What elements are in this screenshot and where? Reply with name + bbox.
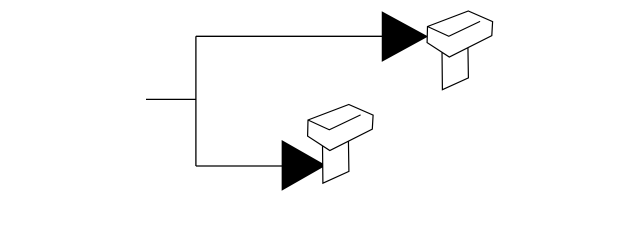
- node splitter junction: [195, 36, 197, 166]
- wire bottom branch: [196, 165, 283, 167]
- transducer X1 striker blade (top): [442, 46, 468, 90]
- wire top branch: [196, 35, 383, 37]
- wire input stub: [146, 98, 196, 100]
- transducer X2 body box (bottom): [308, 105, 374, 151]
- amplifier A2 (bottom driver triangle): [282, 141, 325, 190]
- transducer X2 striker blade (bottom): [323, 139, 349, 183]
- amplifier A1 (top driver triangle): [382, 12, 427, 61]
- transducer X1 top-face crease line (top): [428, 21, 481, 36]
- transducer X2 top-face crease line (bottom): [308, 115, 361, 130]
- transducer X1 body box (top): [427, 11, 493, 57]
